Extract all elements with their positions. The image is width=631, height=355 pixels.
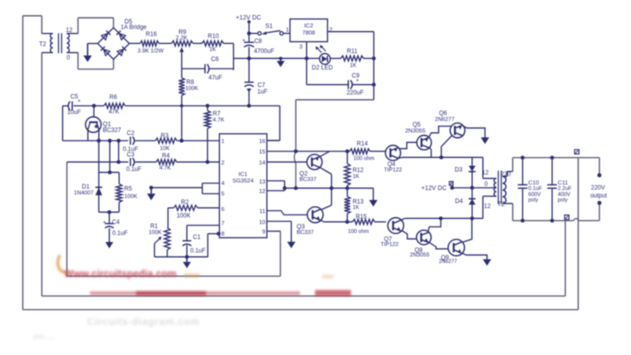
svg-text:1A Bridge: 1A Bridge (121, 25, 148, 31)
svg-text:R14: R14 (357, 142, 369, 148)
svg-text:9: 9 (262, 230, 265, 236)
svg-text:T2: T2 (39, 41, 47, 48)
svg-text:C2: C2 (127, 131, 135, 137)
svg-text:15: 15 (259, 150, 265, 156)
svg-text:13: 13 (259, 179, 265, 185)
svg-text:D2 LED: D2 LED (312, 66, 334, 72)
svg-text:100 ohm: 100 ohm (348, 229, 369, 235)
svg-text:12: 12 (482, 170, 489, 176)
svg-text:3.9K 1/2W: 3.9K 1/2W (138, 49, 165, 55)
svg-text:47uF: 47uF (209, 76, 223, 82)
svg-text:3: 3 (299, 44, 302, 50)
svg-text:R6: R6 (109, 95, 117, 101)
svg-text:1: 1 (221, 139, 224, 145)
svg-text:7808: 7808 (302, 31, 315, 37)
svg-text:Circuits-diagram.com: Circuits-diagram.com (87, 317, 200, 328)
svg-text:14: 14 (259, 160, 266, 166)
svg-text:2: 2 (221, 160, 224, 166)
svg-text:12: 12 (66, 28, 73, 34)
svg-text:0.1uF: 0.1uF (126, 167, 142, 173)
svg-text:C3: C3 (127, 153, 135, 159)
svg-text:4700uF: 4700uF (254, 49, 275, 55)
svg-text:BC327: BC327 (103, 128, 122, 134)
svg-text:R11: R11 (347, 49, 358, 55)
svg-text:D3: D3 (455, 166, 463, 173)
svg-text:C4: C4 (112, 220, 120, 226)
svg-text:1K: 1K (350, 63, 357, 69)
svg-text:12: 12 (484, 204, 491, 210)
svg-text:Q1: Q1 (103, 121, 112, 128)
svg-text:2N3055: 2N3055 (405, 128, 425, 134)
svg-text:R3: R3 (161, 134, 169, 140)
svg-text:IC2: IC2 (304, 24, 313, 30)
svg-text:2.2K: 2.2K (176, 35, 188, 41)
svg-text:1N4007: 1N4007 (74, 190, 94, 196)
svg-text:10uF: 10uF (67, 110, 81, 116)
svg-text:+: + (78, 99, 81, 105)
svg-text:+: + (242, 38, 245, 44)
svg-text:16: 16 (259, 139, 265, 145)
svg-text:10K: 10K (160, 146, 170, 152)
svg-text:1K: 1K (209, 47, 216, 53)
svg-text:S1: S1 (265, 23, 273, 30)
svg-text:2N3055: 2N3055 (410, 252, 430, 258)
svg-text:8: 8 (221, 231, 224, 237)
svg-text:R5: R5 (124, 187, 132, 193)
svg-text:R4: R4 (162, 153, 170, 159)
svg-text:Www.circuitspedia.com: Www.circuitspedia.com (64, 269, 177, 280)
svg-text:100K: 100K (177, 214, 191, 220)
svg-text:output: output (590, 193, 607, 199)
svg-text:1uF: 1uF (257, 89, 268, 95)
svg-text:C8: C8 (254, 39, 262, 45)
svg-text:0.1uF: 0.1uF (190, 249, 206, 255)
svg-text:TIP122: TIP122 (381, 242, 399, 248)
svg-text:6: 6 (221, 207, 224, 213)
svg-text:1K: 1K (353, 205, 360, 211)
svg-text:IC1: IC1 (238, 172, 247, 178)
svg-text:C1: C1 (193, 235, 201, 241)
svg-text:100K: 100K (124, 194, 137, 200)
svg-text:7: 7 (221, 221, 224, 227)
svg-text:C7: C7 (258, 83, 266, 89)
svg-text:1K: 1K (353, 174, 360, 180)
svg-text:10: 10 (259, 220, 265, 226)
svg-text:1: 1 (286, 28, 289, 34)
svg-text:R8: R8 (186, 80, 194, 86)
svg-text:BC337: BC337 (297, 230, 314, 236)
svg-text:poly: poly (558, 197, 568, 203)
svg-text:BC337: BC337 (299, 177, 316, 183)
svg-text:47K: 47K (109, 110, 120, 116)
svg-text:ow.....: ow..... (33, 332, 55, 341)
svg-text:100 ohm: 100 ohm (353, 156, 374, 162)
svg-text:2N6277: 2N6277 (439, 259, 457, 265)
svg-text:R10: R10 (208, 34, 220, 40)
svg-text:+: + (103, 220, 106, 226)
svg-text:R15: R15 (356, 214, 368, 220)
svg-text:####: #### (184, 273, 200, 280)
svg-text:220: 220 (501, 172, 512, 178)
svg-text:2N6277: 2N6277 (435, 117, 455, 123)
svg-text:+12V DC: +12V DC (421, 185, 447, 192)
svg-text:###: ### (322, 274, 334, 281)
svg-text:220uF: 220uF (347, 90, 364, 96)
svg-text:100K: 100K (149, 230, 162, 236)
svg-text:0.1uF: 0.1uF (112, 231, 128, 237)
svg-text:SG3524: SG3524 (232, 178, 254, 184)
svg-text:T2: T2 (497, 201, 505, 208)
svg-text:12: 12 (259, 189, 265, 195)
svg-text:TIP122: TIP122 (384, 168, 402, 174)
svg-text:poly: poly (528, 197, 538, 203)
svg-text:4.7K: 4.7K (159, 166, 171, 172)
svg-text:R16: R16 (146, 32, 158, 38)
svg-text:2: 2 (329, 28, 332, 34)
svg-text:C6: C6 (211, 57, 219, 63)
svg-text:11: 11 (259, 209, 265, 215)
svg-text:D4: D4 (455, 198, 463, 205)
svg-text:4.7K: 4.7K (213, 117, 225, 123)
svg-text:220V: 220V (591, 186, 605, 192)
svg-text:5: 5 (221, 192, 224, 198)
svg-text:+: + (356, 78, 359, 84)
svg-text:100K: 100K (185, 86, 198, 92)
svg-text:R2: R2 (181, 200, 189, 206)
